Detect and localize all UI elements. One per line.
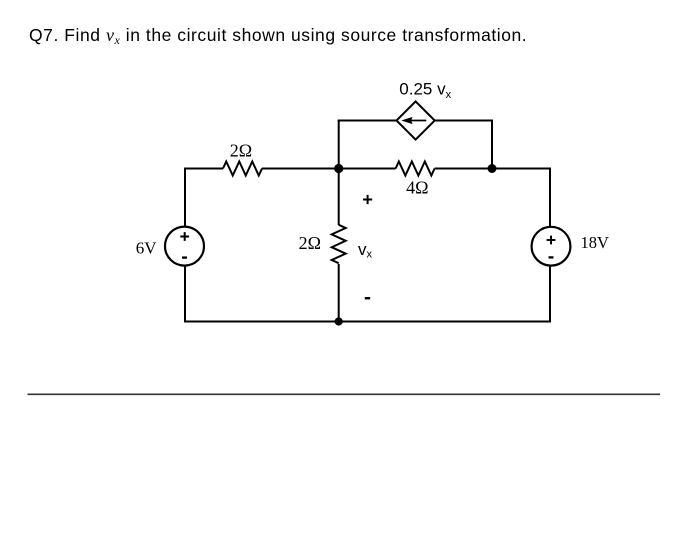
svg-text:6V: 6V — [136, 239, 158, 258]
wire: R1 to node A — [262, 168, 339, 170]
svg-text:vx: vx — [358, 240, 373, 261]
resistor R2 2ohm vertical zigzag — [332, 225, 346, 263]
wire: top branch down to node B — [491, 120, 493, 169]
resistor R1 2ohm horizontal zigzag — [223, 162, 262, 176]
minus sign of vx annotation — [365, 297, 370, 299]
voltage source V2 18V circle — [532, 227, 571, 266]
svg-text:4Ω: 4Ω — [406, 178, 428, 198]
wire: bottom horizontal — [184, 321, 551, 323]
wire: node A to R3 lead — [339, 168, 396, 170]
plus sign of V2 — [547, 236, 556, 245]
resistor R3 4ohm horizontal zigzag — [396, 162, 435, 176]
wire: node B to top-right corner and down — [491, 169, 550, 228]
wire: V1 top to top-left corner — [184, 169, 186, 228]
title — [29, 25, 527, 47]
minus sign of V2 — [549, 256, 554, 258]
node A junction dot — [334, 164, 343, 173]
wire: R2 bottom to node C — [338, 264, 340, 322]
wire: V2 bottom to bottom-right corner — [549, 266, 551, 322]
wire: top branch right segment — [435, 120, 492, 122]
svg-text:18V: 18V — [581, 233, 610, 252]
node C junction dot — [335, 317, 343, 325]
plus sign of vx annotation — [363, 195, 372, 204]
wire: top-left horizontal lead to R1 — [184, 168, 223, 170]
svg-text:0.25 vx: 0.25 vx — [399, 80, 451, 102]
wire: top branch left segment — [338, 120, 397, 122]
wire: bottom-left corner up to V1 bottom — [184, 266, 186, 323]
node B junction dot — [488, 164, 497, 173]
arrow inside dependent source — [401, 117, 426, 124]
svg-text:Q7. Find vx in the circuit sho: Q7. Find vx in the circuit shown using s… — [29, 25, 527, 47]
wire: center branch from node A down to R2 — [338, 169, 340, 226]
svg-text:2Ω: 2Ω — [299, 233, 321, 253]
dependent current source D1 diamond — [397, 101, 435, 139]
minus sign of V1 — [182, 256, 187, 258]
plus sign of V1 — [180, 232, 189, 241]
svg-text:2Ω: 2Ω — [230, 141, 252, 161]
divider line — [28, 393, 661, 395]
voltage source V1 6V circle — [165, 227, 204, 266]
wire: R3 to node B — [435, 168, 492, 170]
wire: node A up to top branch — [338, 120, 340, 169]
